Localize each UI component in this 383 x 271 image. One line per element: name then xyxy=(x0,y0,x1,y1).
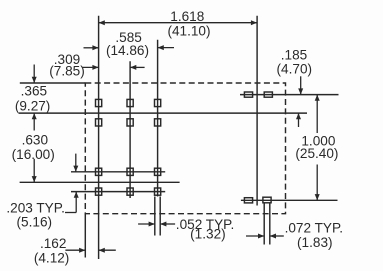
svg-text:.072 TYP.: .072 TYP. xyxy=(285,220,343,235)
wide pin row 1 right xyxy=(264,92,272,97)
dimension .585 right arrow xyxy=(158,47,174,49)
svg-text:.185: .185 xyxy=(281,47,307,62)
pin row 4 line xyxy=(71,191,165,193)
svg-text:(4.12): (4.12) xyxy=(34,251,70,266)
centerline between pin rows 1-2 xyxy=(19,112,307,114)
pin hole row 3 col 2 xyxy=(127,168,133,175)
dimension line 1.618 xyxy=(99,22,258,24)
pin width extension lines .052 xyxy=(154,197,156,236)
right pin row 1 line xyxy=(240,94,339,96)
extension line case top edge left xyxy=(20,82,86,84)
dimension .185 bottom arrow xyxy=(298,113,300,127)
dimension .162 right arrow xyxy=(99,249,116,251)
dimension .630 bottom arrow xyxy=(33,159,35,183)
dimension .309 left arrow xyxy=(82,66,98,68)
pin hole row 1 col 1 xyxy=(96,99,102,106)
svg-text:(4.70): (4.70) xyxy=(277,61,313,76)
pin hole row 3 col 3 xyxy=(155,168,161,175)
svg-text:(9.27): (9.27) xyxy=(15,99,51,114)
svg-text:.162: .162 xyxy=(40,236,66,251)
dimension .162 left arrow xyxy=(65,249,85,251)
svg-text:.630: .630 xyxy=(22,132,49,147)
extension line case left edge below xyxy=(84,214,86,258)
pin hole row 1 col 2 xyxy=(127,99,133,106)
svg-text:(16.00): (16.00) xyxy=(12,147,55,162)
relay case outline (dashed) xyxy=(85,83,285,214)
svg-text:(5.16): (5.16) xyxy=(17,214,53,229)
pin width extension lines .072 xyxy=(263,203,265,245)
pin hole row 4 col 2 xyxy=(127,188,133,195)
pin hole row 2 col 3 xyxy=(155,119,161,126)
pin hole row 2 col 2 xyxy=(127,119,133,126)
pin row 3 line xyxy=(71,171,165,173)
svg-text:.365: .365 xyxy=(21,84,47,99)
pin hole row 3 col 1 xyxy=(96,168,102,175)
dimension .072 left arrow xyxy=(246,235,264,237)
centerline between pin rows 3-4 xyxy=(20,181,180,183)
pin hole row 4 col 3 xyxy=(155,188,161,195)
dimension .203 lower arrow with leader xyxy=(75,192,77,213)
wide pin row 2 right xyxy=(263,197,271,203)
svg-text:(7.85): (7.85) xyxy=(49,64,85,79)
dimension .309 right arrow xyxy=(130,66,145,68)
pin hole row 4 col 1 xyxy=(96,188,102,195)
pin hole row 1 col 3 xyxy=(155,99,161,106)
dimension .203 upper arrow xyxy=(75,154,77,172)
dimension 1.000 bottom arrow xyxy=(316,165,318,201)
svg-text:.203 TYP.: .203 TYP. xyxy=(6,200,64,215)
right pin row 2 line xyxy=(241,199,338,201)
extension line pin column 2 xyxy=(129,61,131,198)
dimension 1.000 top arrow xyxy=(316,95,318,133)
svg-text:(41.10): (41.10) xyxy=(167,23,210,38)
svg-text:1.618: 1.618 xyxy=(170,9,204,24)
dimension .365 top arrow xyxy=(33,65,35,84)
dimension .072 right arrow xyxy=(270,235,284,237)
pin hole row 2 col 1 xyxy=(96,119,102,126)
dimension .185 top arrow xyxy=(300,76,302,94)
dimension .052 left arrow xyxy=(138,223,155,225)
dimension .585 left arrow xyxy=(84,47,99,49)
svg-text:(14.86): (14.86) xyxy=(106,43,149,58)
wide pin row 1 left xyxy=(244,92,252,97)
dimension .052 right arrow xyxy=(160,223,175,225)
extension line right pin group center xyxy=(256,16,258,206)
extension line pin column 1 xyxy=(98,16,100,259)
svg-text:(25.40): (25.40) xyxy=(295,146,338,161)
svg-text:.052 TYP.: .052 TYP. xyxy=(176,217,234,232)
dimension .365/.630 shared up arrow xyxy=(33,113,35,130)
wide pin row 2 left xyxy=(244,198,252,203)
extension line pin column 3 xyxy=(157,40,159,197)
svg-text:(1.83): (1.83) xyxy=(297,235,333,250)
